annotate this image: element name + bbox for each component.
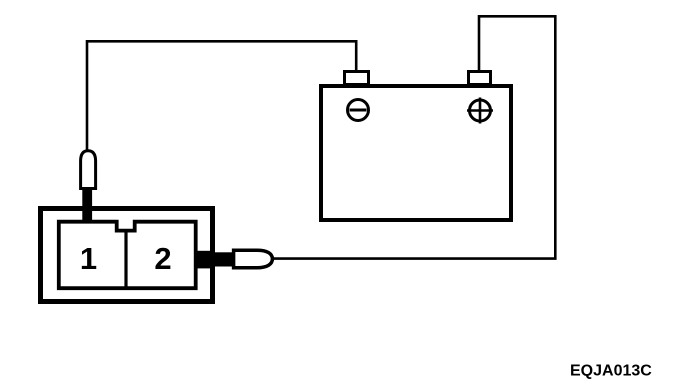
connector outer housing: [41, 209, 213, 302]
connector cavity divider: [124, 231, 127, 288]
svg-text:2: 2: [154, 241, 171, 276]
test probe tip at pin 1 (stem): [82, 187, 92, 223]
svg-text:EQJA013C: EQJA013C: [570, 363, 652, 380]
battery positive terminal post: [469, 72, 491, 85]
test probe at pin 1 (bullet body): [81, 151, 96, 189]
connector inner body with keying notch: [59, 222, 196, 289]
battery: [321, 86, 511, 220]
battery negative (-) marking: [348, 100, 369, 121]
battery positive (+) marking: [467, 98, 493, 124]
wire: negative lead from connector pin 1 probe to battery negative terminal: [87, 41, 356, 150]
test probe tip at pin 2 (stem): [196, 252, 234, 266]
svg-text:1: 1: [80, 241, 97, 276]
test probe at pin 2 (bullet body): [234, 250, 273, 268]
battery negative terminal post: [345, 72, 369, 85]
wire: positive lead from battery positive terminal down to pin 2 probe: [274, 16, 555, 258]
